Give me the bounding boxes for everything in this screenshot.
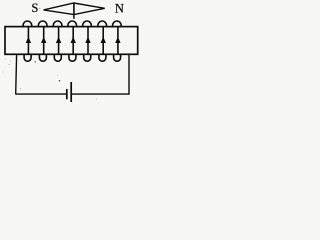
svg-text:S: S	[31, 1, 38, 15]
svg-text:N: N	[115, 1, 124, 15]
